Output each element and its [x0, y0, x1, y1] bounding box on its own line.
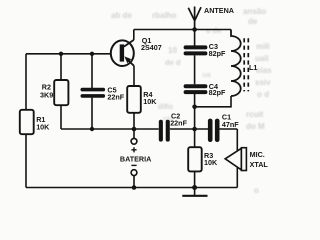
wire node to R3 [194, 129, 196, 147]
svg-text:dific: dific [158, 102, 173, 111]
wire top rail [134, 29, 231, 31]
svg-text:MIC.: MIC. [250, 150, 265, 159]
capacitor C2 [159, 120, 170, 142]
wire mid rail C2 to node [170, 128, 208, 130]
svg-text:22nF: 22nF [170, 118, 187, 127]
svg-text:XTAL: XTAL [250, 160, 269, 169]
microphone MIC XTAL [225, 148, 246, 171]
resistor R2 [54, 80, 68, 105]
wire C1 to mic [220, 128, 238, 130]
svg-text:10K: 10K [143, 97, 157, 106]
wire R2 bottom [60, 105, 62, 129]
wire R1 top drop [25, 54, 27, 110]
wire R3 to ground [194, 171, 196, 187]
svg-text:do M: do M [246, 122, 265, 131]
wire C4 to node [194, 94, 196, 129]
svg-text:10: 10 [168, 46, 177, 55]
capacitor C5 [81, 88, 106, 98]
svg-text:10K: 10K [204, 158, 218, 167]
svg-text:ab de: ab de [111, 11, 132, 20]
svg-text:ANTENA: ANTENA [204, 6, 234, 15]
wire bottom rail [26, 187, 237, 189]
svg-text:2S407: 2S407 [141, 43, 162, 52]
svg-text:ua: ua [202, 70, 212, 79]
node tank bottom junction [192, 105, 197, 110]
wire R1 bottom drop [25, 134, 27, 188]
svg-text:elas: elas [256, 66, 272, 75]
svg-text:82pF: 82pF [209, 49, 226, 58]
transistor Q1 [111, 40, 134, 66]
resistor R1 [20, 110, 34, 134]
svg-text:BATERIA: BATERIA [120, 154, 151, 163]
svg-text:3K9: 3K9 [40, 90, 53, 99]
svg-text:ansão: ansão [243, 7, 266, 16]
svg-text:de: de [248, 17, 258, 26]
svg-text:L1: L1 [249, 63, 257, 72]
wire battery plus lead [133, 129, 135, 138]
ground [182, 188, 207, 196]
node mid rail-R3 junction [192, 127, 197, 132]
inductor L1 [231, 30, 241, 97]
node C5-mid rail junction [90, 127, 94, 131]
wire emitter to R4 [133, 66, 135, 86]
wire R4 to battery node [133, 113, 135, 129]
capacitor C3 [184, 45, 208, 55]
svg-text:10K: 10K [36, 122, 50, 131]
svg-text:47nF: 47nF [222, 120, 239, 129]
core of L1 (dashed) [244, 38, 248, 91]
wire battery minus lead [133, 176, 135, 188]
wire C3 to C4 [194, 55, 196, 84]
svg-text:rcuít: rcuít [246, 110, 264, 119]
node base-C5 junction [90, 52, 94, 56]
wire tank top [194, 30, 196, 46]
svg-text:o de: o de [206, 26, 221, 35]
wire R2 top [60, 54, 62, 80]
svg-text:de d: de d [165, 58, 181, 67]
node base-R2 junction [59, 52, 63, 56]
svg-text:82pF: 82pF [209, 88, 226, 97]
node battery-bottom rail junction [132, 185, 137, 190]
capacitor C4 [184, 84, 208, 94]
wire C5 bottom [91, 98, 93, 129]
wire mid rail R2 to C2 [61, 128, 159, 130]
wire C5 top [91, 54, 93, 88]
svg-text:uali: uali [255, 54, 269, 63]
wire base rail horizontal [26, 53, 121, 55]
svg-text:o d: o d [257, 90, 269, 99]
svg-text:mili: mili [256, 42, 270, 51]
capacitor C1 [208, 119, 220, 142]
wire collector riser [133, 30, 135, 40]
wire L1 bottom link [195, 96, 231, 107]
svg-text:ssiv: ssiv [255, 78, 271, 87]
svg-text:o: o [254, 186, 259, 195]
resistor R4 [127, 86, 141, 113]
node antenna junction [192, 27, 197, 32]
node ground junction [192, 185, 197, 190]
antenna [188, 7, 201, 30]
battery terminals [131, 138, 137, 175]
wire mic column [236, 129, 238, 188]
svg-text:rbalho: rbalho [152, 11, 177, 20]
node R4-battery junction [132, 127, 137, 132]
svg-text:22nF: 22nF [107, 93, 124, 102]
faint page bleed-through (decorative) [111, 7, 272, 195]
resistor R3 [188, 147, 202, 171]
